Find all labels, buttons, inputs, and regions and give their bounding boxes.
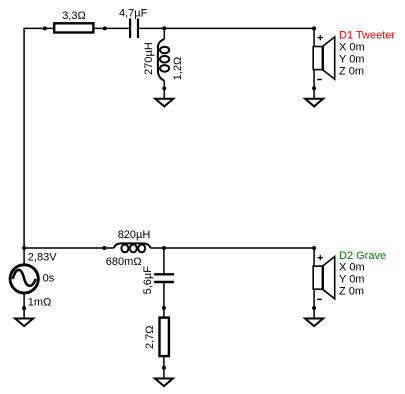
svg-text:1mΩ: 1mΩ — [28, 296, 52, 308]
svg-text:Y 0m: Y 0m — [339, 274, 364, 286]
svg-text:X 0m: X 0m — [339, 41, 365, 53]
svg-text:270µH: 270µH — [143, 42, 155, 75]
svg-text:4,7µF: 4,7µF — [119, 7, 148, 19]
svg-text:2,83V: 2,83V — [28, 251, 57, 263]
svg-text:0s: 0s — [43, 272, 55, 284]
svg-text:X 0m: X 0m — [339, 262, 365, 274]
svg-text:1,2Ω: 1,2Ω — [172, 57, 184, 81]
svg-text:Y 0m: Y 0m — [339, 53, 364, 65]
svg-text:D2 Grave: D2 Grave — [339, 250, 386, 262]
svg-text:820µH: 820µH — [118, 229, 151, 241]
svg-text:2,7Ω: 2,7Ω — [144, 326, 156, 350]
svg-text:5,6µF: 5,6µF — [142, 266, 154, 295]
svg-text:680mΩ: 680mΩ — [106, 256, 142, 268]
svg-text:3,3Ω: 3,3Ω — [62, 10, 86, 22]
svg-text:D1 Tweeter: D1 Tweeter — [339, 29, 395, 41]
svg-text:Z 0m: Z 0m — [339, 65, 364, 77]
svg-text:Z 0m: Z 0m — [339, 286, 364, 298]
